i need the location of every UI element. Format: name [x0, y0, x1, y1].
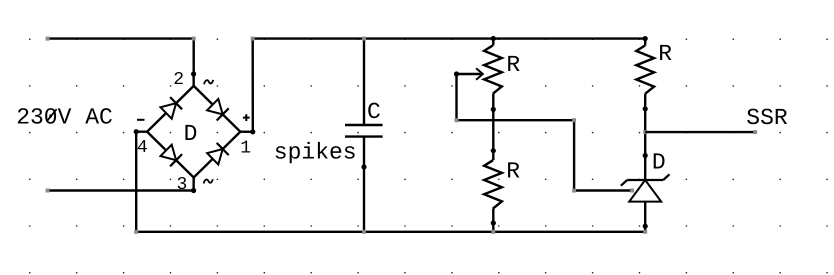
bridge stub pin 3	[192, 178, 194, 191]
minus mark	[137, 119, 145, 121]
R2 bottom joint	[491, 220, 496, 225]
wire negative rail	[136, 132, 645, 232]
pot wiper arrow	[457, 73, 482, 75]
resistor R3	[644, 39, 646, 46]
svg-text:D: D	[652, 150, 666, 176]
junction R3 top	[643, 36, 648, 41]
endpoint marker	[46, 189, 50, 193]
svg-text:R: R	[658, 41, 672, 67]
diode D (4 to 3)	[161, 145, 177, 161]
svg-text:R: R	[506, 159, 520, 185]
bridge stub pin 1	[240, 130, 253, 133]
joint dot	[361, 164, 366, 169]
wire zener to rail	[644, 202, 646, 232]
diode D (3 to 1)	[207, 149, 223, 165]
wire wiper feedback path	[457, 74, 633, 191]
svg-text:3: 3	[177, 175, 188, 195]
tilde ac mark top	[204, 80, 213, 84]
svg-text:spikes: spikes	[274, 140, 357, 166]
joint dot	[643, 224, 648, 229]
svg-text:D: D	[184, 121, 198, 147]
zener diode D cathode bar	[627, 179, 663, 181]
R3 bottom joint	[643, 106, 648, 111]
wire AC input top (230V AC line 1)	[49, 39, 194, 74]
tilde ac mark bottom	[204, 179, 213, 183]
plus mark	[243, 117, 250, 119]
capacitor C bottom plate	[345, 135, 383, 137]
svg-text:230V AC: 230V AC	[16, 104, 113, 130]
wire cap top lead	[363, 39, 365, 125]
svg-text:R: R	[506, 52, 520, 78]
svg-text:1: 1	[240, 138, 251, 158]
bridge rectifier D diamond	[147, 86, 240, 178]
wire positive rail (node1 up, top rail)	[253, 39, 646, 132]
wire R3 to zener	[644, 109, 646, 180]
bridge stub pin 2	[192, 74, 194, 86]
node 2 junction	[191, 71, 196, 76]
svg-text:4: 4	[137, 138, 148, 158]
wire AC input bottom (230V AC line 2)	[49, 189, 194, 191]
capacitor C top plate	[345, 124, 383, 126]
junction pot top	[491, 36, 496, 41]
wiper node	[454, 71, 459, 76]
corner marker	[251, 37, 255, 41]
wire cap bottom lead	[363, 137, 365, 232]
wire pot to R2	[492, 109, 494, 150]
resistor R1 potentiometer body	[492, 39, 494, 46]
svg-text:2: 2	[173, 70, 184, 90]
corner marker	[134, 230, 138, 234]
diode D (4 to 2)	[161, 103, 177, 119]
pot bottom joint	[491, 107, 496, 112]
bridge stub pin 4	[136, 130, 147, 132]
node 3 junction	[191, 188, 196, 193]
resistor R2	[492, 151, 494, 161]
svg-text:C: C	[367, 99, 381, 125]
cap-rail bottom marker	[362, 230, 366, 234]
slashed zero mark	[47, 109, 57, 121]
node 1 junction	[250, 129, 255, 134]
zener top joint	[643, 153, 648, 158]
R2 top joint	[491, 148, 496, 153]
cap-rail junction marker	[362, 37, 366, 41]
svg-text:SSR: SSR	[746, 105, 788, 131]
zener triangle	[629, 180, 661, 202]
diode D (2 to 1)	[207, 99, 223, 115]
endpoint marker	[46, 37, 50, 41]
node 4 junction	[134, 129, 139, 134]
corner marker	[192, 37, 196, 41]
wire SSR output	[645, 131, 755, 133]
SSR tap marker	[643, 130, 647, 134]
